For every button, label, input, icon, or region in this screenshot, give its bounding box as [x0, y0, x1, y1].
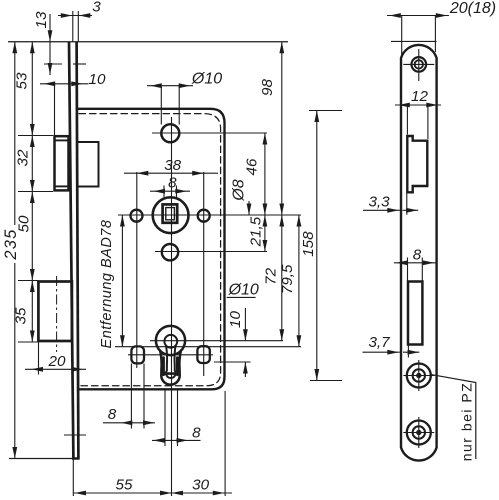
svg-text:158: 158 — [300, 231, 317, 257]
svg-text:38: 38 — [164, 157, 181, 174]
svg-text:72: 72 — [263, 267, 280, 284]
svg-text:235: 235 — [2, 228, 20, 260]
svg-text:10: 10 — [89, 71, 106, 88]
svg-text:98: 98 — [259, 79, 276, 96]
svg-text:Ø10: Ø10 — [228, 282, 259, 299]
svg-text:32: 32 — [15, 149, 32, 166]
svg-text:8: 8 — [192, 425, 201, 442]
svg-text:46: 46 — [244, 158, 261, 175]
svg-text:8: 8 — [108, 406, 117, 423]
svg-text:Ø8: Ø8 — [231, 179, 248, 201]
svg-text:13: 13 — [33, 11, 50, 28]
svg-text:3,3: 3,3 — [368, 193, 390, 210]
svg-text:3,7: 3,7 — [368, 334, 390, 351]
svg-text:8: 8 — [413, 247, 422, 264]
svg-text:20: 20 — [48, 353, 66, 370]
svg-text:79,5: 79,5 — [279, 264, 296, 294]
svg-text:55: 55 — [116, 476, 133, 493]
svg-text:3: 3 — [92, 0, 101, 16]
svg-text:12: 12 — [411, 88, 428, 105]
svg-text:nur bei PZ: nur bei PZ — [459, 382, 475, 462]
svg-text:Entfernung BAD78: Entfernung BAD78 — [99, 220, 115, 349]
svg-text:10: 10 — [227, 311, 244, 328]
svg-text:Ø10: Ø10 — [191, 71, 222, 88]
svg-text:53: 53 — [14, 72, 31, 89]
svg-text:30: 30 — [192, 476, 209, 493]
svg-text:8: 8 — [168, 175, 177, 192]
svg-text:21,5: 21,5 — [248, 216, 265, 247]
svg-text:20(18): 20(18) — [449, 0, 496, 17]
